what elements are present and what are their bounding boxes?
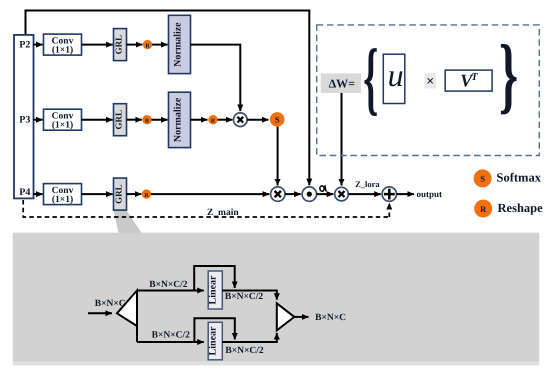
wire P4 to Conv3 [33, 193, 43, 195]
multiply sign between U and VT [425, 73, 437, 90]
svg-text:B×N×C/2: B×N×C/2 [149, 280, 188, 290]
wire R1 to Normalize1 [152, 44, 168, 46]
svg-text:(1×1): (1×1) [52, 121, 73, 131]
multiply node (circled X) row2 [234, 113, 248, 127]
wire Normalize2 to reshape R2b [191, 119, 208, 121]
P feature box (P2/P3/P4) [14, 35, 34, 199]
wire merge triangle to output [294, 316, 308, 318]
svg-text:P3: P3 [19, 115, 30, 126]
wire adder to output [397, 193, 415, 195]
svg-text:Normalize: Normalize [173, 97, 184, 142]
svg-text:T: T [471, 72, 478, 83]
wire dot-product to multiply node alpha [317, 193, 334, 195]
softmax node S [270, 112, 285, 127]
svg-text:S: S [480, 174, 485, 184]
wire input into split triangle [88, 312, 112, 314]
Conv(1x1) box row1 [44, 34, 82, 56]
svg-text:(1×1): (1×1) [52, 46, 73, 56]
svg-text:ΔW=: ΔW= [329, 77, 356, 91]
wire skip connection over Linear2 [194, 318, 234, 342]
wire P3 to Conv2 [33, 119, 43, 121]
legend reshape node [474, 200, 492, 218]
svg-text:u: u [388, 57, 404, 93]
Linear box 1 [208, 271, 223, 309]
GRL box row1 [114, 29, 127, 61]
wire Conv1 to GRL1 [82, 44, 113, 46]
wire multiply row2 to softmax S [247, 119, 268, 121]
wire S down into multiply node row3 [277, 127, 279, 186]
Conv(1x1) box row3 [44, 184, 82, 206]
svg-text:R: R [144, 193, 149, 199]
wire GRL2 to reshape R row2 [127, 119, 142, 121]
Linear box 2 [208, 322, 223, 360]
reshape node R row1 [143, 40, 152, 50]
svg-text:Linear: Linear [208, 275, 219, 304]
svg-text:B×N×C/2: B×N×C/2 [152, 330, 191, 340]
wire bottom branch into Linear2 [137, 341, 204, 343]
reshape node R2b [208, 115, 217, 125]
svg-text:Normalize: Normalize [173, 22, 184, 67]
wire multiply row3 to dot-product node [285, 193, 301, 195]
wire R3 to multiply node row3 [151, 193, 269, 195]
wire Linear1 to merge triangle top [222, 291, 276, 300]
wire Conv3 to GRL3 [82, 193, 113, 195]
svg-text:Linear: Linear [208, 326, 219, 355]
svg-text:Reshape: Reshape [498, 201, 544, 215]
multiply node (circled X) alpha [335, 187, 349, 201]
legend softmax node [474, 169, 492, 187]
svg-text:(1×1): (1×1) [52, 195, 73, 205]
delta-W label box [321, 73, 361, 93]
svg-text:S: S [275, 115, 280, 125]
svg-text:P4: P4 [19, 187, 30, 198]
gray panel [13, 233, 540, 364]
VT matrix box [445, 70, 492, 91]
wire: feedback from top of P box to dot-product node [26, 11, 310, 186]
dot-product node (circled dot) [302, 187, 316, 201]
svg-text:R: R [480, 204, 487, 214]
wire Linear2 to merge triangle bottom [222, 333, 276, 342]
wire skip connection over Linear1 [194, 266, 235, 291]
Normalize box row2 [169, 92, 191, 147]
svg-text:Z_lora: Z_lora [355, 179, 380, 189]
wire multiply alpha to adder [348, 193, 381, 195]
svg-text:P2: P2 [19, 39, 30, 50]
dashed LoRA decomposition box [317, 25, 540, 156]
GRL box row3 [114, 178, 127, 210]
wire from delta-W box down into multiply node alpha [341, 93, 343, 186]
GRL box row2 [114, 104, 127, 136]
svg-text:output: output [417, 189, 443, 199]
reshape node R row2 [142, 115, 151, 125]
wire GRL3 to reshape R row3 [127, 193, 142, 195]
wire split base vertical [136, 291, 138, 343]
svg-text:{: { [363, 32, 378, 123]
svg-text:R: R [145, 119, 150, 125]
svg-text:R: R [145, 43, 150, 49]
callout trapezoid from GRL P4 to gray panel [114, 210, 142, 233]
svg-text:Softmax: Softmax [497, 171, 542, 185]
multiply node (circled X) row3 [271, 187, 285, 201]
wire Conv2 to GRL2 [82, 119, 113, 121]
reshape node R row3 [142, 189, 151, 198]
svg-text:B×N×C: B×N×C [315, 313, 346, 323]
wire top branch into Linear1 [137, 290, 204, 292]
Normalize box row1 [169, 15, 191, 73]
label a (alpha weight) [319, 185, 326, 191]
svg-text:B×N×C/2: B×N×C/2 [225, 346, 264, 356]
split triangle [117, 291, 137, 327]
svg-text:}: } [499, 28, 518, 122]
U matrix box [383, 54, 405, 103]
wire GRL1 to reshape R row1 [127, 44, 143, 46]
svg-text:GRL: GRL [114, 35, 124, 55]
wire P2 to Conv1 [33, 44, 43, 46]
svg-text:×: × [426, 75, 434, 90]
adder node (circled plus) [382, 187, 396, 201]
wire Normalize1 right then down into multiply node row2 [191, 45, 241, 112]
svg-text:R: R [211, 119, 216, 125]
wire R2 to Normalize2 [152, 119, 168, 121]
merge triangle [277, 303, 295, 330]
wire R2b to multiply node row2 [218, 119, 233, 121]
dashed Z_main path from P box bottom to adder [23, 200, 389, 217]
Conv(1x1) box row2 [44, 109, 82, 131]
svg-text:B×N×C/2: B×N×C/2 [225, 292, 264, 302]
svg-text:GRL: GRL [114, 184, 124, 204]
svg-text:GRL: GRL [114, 110, 124, 130]
